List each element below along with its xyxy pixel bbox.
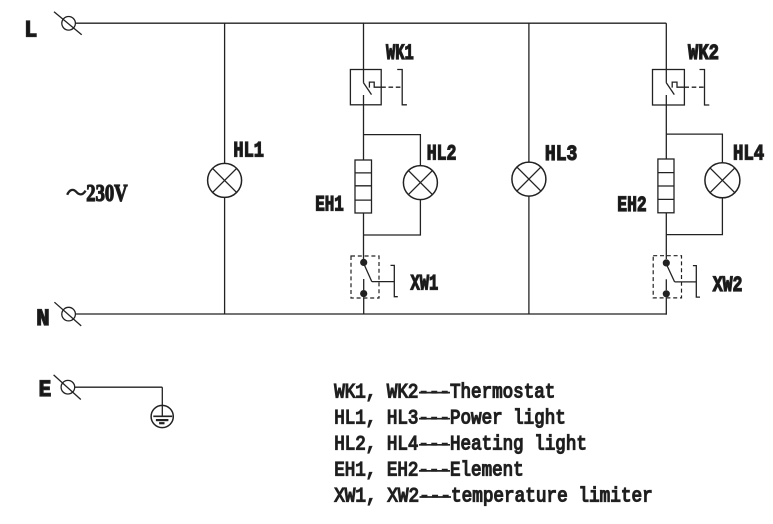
legend dash rule line 2 [419,418,450,420]
wire WK1 to EH1 [363,105,365,160]
lamp HL3 [512,162,546,196]
legend dash rule line 1 [419,392,450,394]
wire WK2 to EH2 [665,105,667,159]
lamp HL1 [208,163,242,197]
wire WK2 top feed [665,23,667,69]
legend dash rule line 3 [419,444,450,446]
wire HL4 branch bottom [666,198,722,235]
temperature limiter XW1 [351,256,398,298]
element EH2 [658,159,674,213]
svg-text:EH1: EH1 [315,192,344,217]
thermostat WK2 [653,70,710,106]
wire HL3 lower [528,196,530,314]
wire WK1 top feed [363,23,365,69]
svg-text:HL3: HL3 [545,142,577,167]
earth ground symbol [151,405,173,427]
svg-text:EH2: EH2 [617,193,646,218]
svg-text:XW1: XW1 [411,272,439,297]
terminal N [54,302,81,326]
svg-text:HL2: HL2 [427,142,457,167]
svg-text:HL2, HL4---Heating light: HL2, HL4---Heating light [334,434,587,457]
svg-text:XW1, XW2---temperature limiter: XW1, XW2---temperature limiter [334,486,653,509]
svg-text:WK2: WK2 [688,41,719,66]
wire E vertical [161,387,163,416]
lamp HL2 [403,166,437,200]
svg-text:HL4: HL4 [733,142,764,167]
legend dash rule line 4 [419,470,450,472]
terminal L [54,12,82,35]
wire HL1 upper [224,23,226,163]
wire L rail [76,22,667,24]
wire XW2 to N rail corner [665,298,667,315]
wire EH1 to XW1 [363,213,365,259]
svg-text:HL1: HL1 [233,139,264,164]
svg-text:E: E [39,377,52,403]
svg-text:HL1, HL3---Power light: HL1, HL3---Power light [334,407,566,430]
svg-text:230V: 230V [86,181,128,207]
svg-text:XW2: XW2 [713,273,743,298]
wire HL3 upper [528,23,530,162]
svg-text:N: N [36,306,49,332]
wire N rail [76,313,667,315]
wire HL2 branch bottom [364,200,421,235]
svg-text:WK1: WK1 [386,41,414,66]
svg-text:L: L [24,18,37,44]
element EH1 [355,160,372,213]
wire EH2 to XW2 [665,213,667,259]
legend dash rule line 5 [420,496,452,498]
temperature limiter XW2 [653,256,700,298]
terminal E [54,375,81,400]
wire XW1 to N rail [363,297,365,314]
wire HL4 branch top [666,134,722,162]
label ~230V [67,181,128,207]
wire HL1 lower [224,197,226,314]
wire E horizontal [75,386,163,388]
lamp HL4 [705,163,740,198]
wire HL2 branch top [364,135,421,166]
thermostat WK1 [350,70,407,105]
